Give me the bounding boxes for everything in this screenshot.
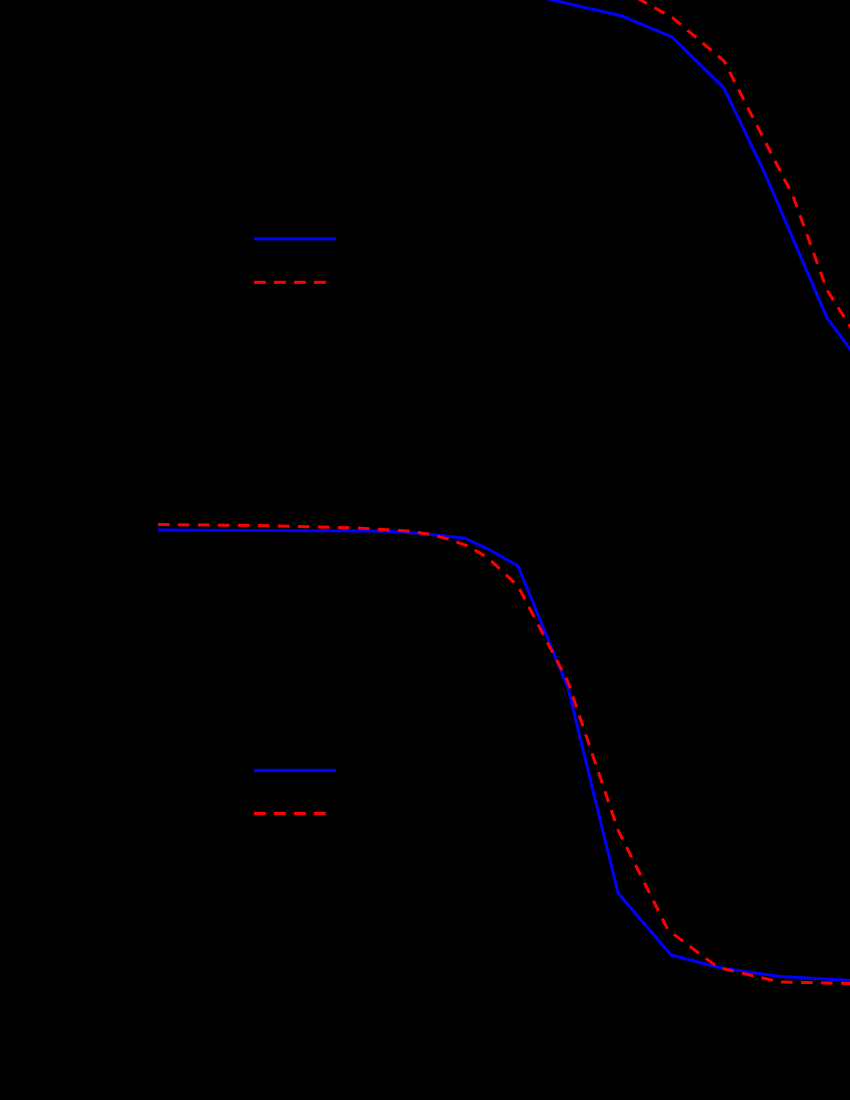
legend 1: red dashed handle [254, 281, 330, 284]
bottom subplot: blue solid curve [158, 530, 850, 981]
top subplot: blue solid curve (success rate) [544, 0, 850, 353]
legend 2: blue solid handle [254, 769, 336, 772]
legend 1: blue solid handle [254, 237, 336, 240]
legend 2: red dashed handle [254, 812, 330, 815]
bottom subplot: red dashed curve [158, 525, 850, 984]
top subplot: red dashed curve [637, 0, 850, 331]
